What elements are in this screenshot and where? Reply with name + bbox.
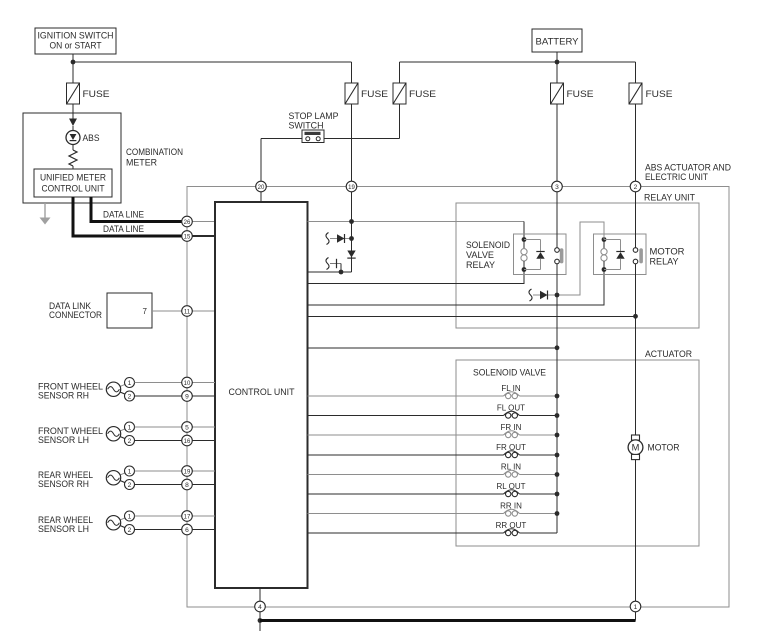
wire — [260, 139, 262, 182]
wire — [135, 426, 182, 428]
wire — [135, 395, 182, 397]
label REAR WHEEL SENSOR LH — [38, 515, 93, 534]
wire — [135, 470, 182, 472]
junction dot — [555, 453, 560, 458]
svg-text:4: 4 — [258, 604, 262, 611]
wire — [259, 588, 261, 601]
wire — [192, 440, 215, 442]
wire — [635, 104, 637, 181]
svg-text:FUSE: FUSE — [361, 89, 388, 99]
svg-text:FR IN: FR IN — [501, 423, 522, 432]
wire — [635, 62, 637, 83]
pin 26 — [182, 216, 193, 227]
svg-text:METER: METER — [126, 158, 157, 168]
arrow into meter — [69, 119, 77, 127]
junction dot — [555, 472, 560, 477]
solenoid relay armature — [560, 248, 564, 263]
pin 20 — [256, 181, 267, 192]
label REAR WHEEL SENSOR RH — [38, 470, 93, 489]
pin 1 — [125, 422, 135, 432]
svg-text:CONNECTOR: CONNECTOR — [49, 310, 102, 320]
wire — [556, 104, 558, 181]
wire — [135, 529, 182, 531]
wire — [635, 460, 637, 602]
wire — [399, 62, 401, 83]
wire — [72, 126, 74, 131]
motor relay box — [594, 234, 647, 275]
svg-text:26: 26 — [184, 220, 191, 226]
wire data line 1 (thick) — [91, 197, 182, 222]
svg-text:FL IN: FL IN — [501, 384, 520, 393]
wire — [192, 395, 215, 397]
svg-text:CONTROL UNIT: CONTROL UNIT — [42, 184, 105, 194]
wire — [135, 484, 182, 486]
solenoid relay flyback diode — [524, 240, 545, 270]
pin 1 — [125, 378, 135, 388]
svg-text:FUSE: FUSE — [83, 89, 110, 99]
solenoid relay coil — [521, 240, 527, 270]
fuse F2 (ignition/ABS) — [345, 83, 358, 104]
label STOP LAMP SWITCH — [289, 111, 339, 131]
FRONT WHEEL SENSOR RH sensor — [106, 382, 129, 396]
solenoid valve FL IN — [308, 392, 558, 399]
junction dot — [71, 60, 76, 65]
ABS actuator and electric unit box — [187, 187, 729, 608]
wire battery rail — [400, 61, 636, 63]
motor relay contact — [633, 248, 638, 264]
motor relay flyback diode — [604, 240, 625, 270]
svg-text:RR OUT: RR OUT — [496, 521, 527, 530]
svg-text:3: 3 — [555, 184, 559, 191]
svg-text:CONTROL UNIT: CONTROL UNIT — [229, 387, 295, 397]
wire motor relay coil feed — [557, 222, 604, 295]
pin 11 — [182, 306, 193, 317]
junction dot — [602, 267, 607, 272]
wire solenoid valve supply — [556, 192, 558, 533]
pin 15 — [182, 231, 193, 242]
svg-text:2: 2 — [634, 184, 638, 191]
unified meter control unit box — [34, 169, 112, 197]
junction dot — [349, 236, 354, 241]
wire — [260, 192, 262, 202]
solenoid valve RL OUT — [308, 490, 558, 497]
svg-text:19: 19 — [184, 469, 191, 475]
pin 19 (sensor) — [182, 466, 193, 477]
resistor (meter) — [69, 150, 77, 166]
svg-text:SOLENOID: SOLENOID — [466, 240, 510, 250]
wire — [135, 382, 182, 384]
svg-text:1: 1 — [128, 380, 132, 387]
pin 10 — [182, 377, 193, 388]
wire — [351, 192, 353, 222]
fuse F5 (battery/motor) — [629, 83, 642, 104]
svg-text:RR IN: RR IN — [500, 502, 522, 511]
combination meter box — [23, 113, 121, 203]
pin 1 — [125, 466, 135, 476]
fuse F3 (battery/stop lamp) — [393, 83, 406, 104]
svg-text:ACTUATOR: ACTUATOR — [645, 349, 692, 359]
wire ground bus (thick) — [260, 619, 636, 622]
wire — [635, 612, 637, 621]
wire data line 2 (thick) — [73, 197, 182, 236]
svg-text:2: 2 — [128, 438, 132, 445]
control unit box — [215, 202, 308, 588]
wire — [351, 62, 353, 83]
pin 4 — [255, 601, 266, 612]
wire motor relay coil return — [308, 270, 605, 306]
wire ignition rail — [73, 61, 352, 63]
pin 9 — [182, 391, 193, 402]
wire — [261, 138, 302, 140]
junction dot — [555, 293, 560, 298]
label COMBINATION METER — [126, 147, 183, 168]
junction dot — [522, 267, 527, 272]
label FRONT WHEEL SENSOR RH — [38, 381, 103, 400]
motor relay armature — [639, 248, 643, 263]
internal diode D3 — [529, 289, 557, 301]
svg-text:BATTERY: BATTERY — [536, 37, 579, 47]
label FRONT WHEEL SENSOR LH — [38, 426, 103, 445]
wire — [72, 166, 74, 169]
wire — [399, 104, 401, 139]
svg-text:17: 17 — [184, 514, 191, 520]
wire — [192, 484, 215, 486]
svg-text:RELAY UNIT: RELAY UNIT — [644, 193, 695, 203]
wire — [192, 235, 215, 237]
solenoid valve FR OUT — [308, 451, 558, 458]
solenoid valve RL IN — [308, 470, 558, 477]
FRONT WHEEL SENSOR LH sensor — [106, 427, 129, 441]
svg-text:FR OUT: FR OUT — [496, 443, 526, 452]
junction dot — [258, 618, 263, 623]
label MOTOR RELAY — [650, 247, 685, 267]
svg-text:5: 5 — [185, 424, 189, 431]
svg-text:SENSOR LH: SENSOR LH — [38, 524, 89, 534]
wire — [324, 138, 400, 140]
svg-text:ELECTRIC UNIT: ELECTRIC UNIT — [645, 172, 708, 182]
wire — [192, 382, 215, 384]
pin 17 — [182, 511, 193, 522]
pin 2 — [125, 391, 135, 401]
solenoid valve RR IN — [308, 509, 558, 516]
svg-text:RELAY: RELAY — [650, 257, 679, 267]
wire — [135, 515, 182, 517]
svg-text:8: 8 — [185, 482, 189, 489]
svg-text:RL OUT: RL OUT — [496, 482, 525, 491]
svg-text:ABS: ABS — [83, 133, 100, 143]
junction dot — [555, 492, 560, 497]
wire — [72, 145, 74, 151]
junction dot — [555, 345, 560, 350]
motor relay coil — [601, 240, 607, 270]
svg-text:6: 6 — [185, 527, 189, 534]
pin 1 — [125, 511, 135, 521]
wire — [135, 440, 182, 442]
svg-text:SOLENOID VALVE: SOLENOID VALVE — [473, 368, 546, 378]
svg-text:2: 2 — [128, 482, 132, 489]
junction dot — [555, 60, 560, 65]
svg-text:FUSE: FUSE — [567, 89, 594, 99]
REAR WHEEL SENSOR LH sensor — [106, 516, 129, 530]
pin 2 — [630, 181, 641, 192]
svg-text:SENSOR LH: SENSOR LH — [38, 435, 89, 445]
svg-text:MOTOR: MOTOR — [650, 247, 685, 257]
svg-text:RL IN: RL IN — [501, 463, 521, 472]
svg-text:FUSE: FUSE — [646, 89, 673, 99]
svg-text:16: 16 — [184, 439, 191, 445]
ignition switch box — [35, 28, 116, 54]
svg-text:M: M — [632, 442, 640, 452]
wire solenoid valve monitor — [308, 347, 558, 349]
svg-text:FUSE: FUSE — [409, 89, 436, 99]
motor M1 — [628, 435, 643, 460]
svg-text:ABS ACTUATOR AND: ABS ACTUATOR AND — [645, 163, 731, 173]
svg-text:11: 11 — [184, 309, 191, 315]
svg-text:19: 19 — [348, 185, 355, 191]
svg-text:DATA LINE: DATA LINE — [103, 224, 144, 234]
junction dot — [555, 394, 560, 399]
pin 3 — [552, 181, 563, 192]
wire — [308, 271, 352, 273]
pin 19 — [346, 181, 357, 192]
svg-text:1: 1 — [128, 424, 132, 431]
solenoid valve FL OUT — [308, 411, 558, 418]
solenoid valve FR IN — [308, 431, 558, 438]
svg-text:20: 20 — [258, 185, 265, 191]
junction dot — [349, 219, 354, 224]
svg-text:STOP LAMP: STOP LAMP — [289, 111, 339, 121]
wire solenoid relay coil feed (gray rail) — [308, 221, 525, 223]
label DATA LINK CONNECTOR — [49, 301, 102, 320]
relay unit box — [456, 203, 699, 328]
data link connector box — [107, 293, 152, 328]
svg-text:10: 10 — [184, 381, 191, 387]
svg-text:ON or START: ON or START — [50, 41, 102, 51]
internal diode D2 (down) — [347, 251, 355, 259]
stop lamp switch — [302, 130, 324, 143]
svg-text:COMBINATION: COMBINATION — [126, 147, 183, 157]
svg-text:IGNITION SWITCH: IGNITION SWITCH — [38, 31, 114, 41]
svg-text:1: 1 — [634, 604, 638, 611]
junction dot — [633, 314, 638, 319]
svg-text:MOTOR: MOTOR — [648, 443, 680, 453]
wire motor supply — [635, 192, 637, 435]
junction dot — [602, 237, 607, 242]
battery box — [532, 29, 582, 52]
solenoid valve RR OUT — [308, 529, 558, 536]
svg-text:9: 9 — [185, 393, 189, 400]
pin 2 — [125, 480, 135, 490]
pin 8 — [182, 479, 193, 490]
pin 2 — [125, 525, 135, 535]
pin 5 — [182, 422, 193, 433]
svg-text:SWITCH: SWITCH — [289, 121, 324, 131]
svg-text:2: 2 — [128, 527, 132, 534]
junction dot — [555, 511, 560, 516]
svg-text:SENSOR RH: SENSOR RH — [38, 391, 89, 401]
wire — [192, 515, 215, 517]
solenoid relay contact — [555, 248, 560, 264]
junction dot — [522, 237, 527, 242]
wire — [556, 52, 558, 83]
internal diode D1 — [326, 233, 352, 245]
wire — [192, 529, 215, 531]
svg-text:VALVE: VALVE — [466, 250, 494, 260]
junction dot — [339, 270, 344, 275]
fuse F1 (ignition/meter) — [67, 83, 80, 104]
svg-text:1: 1 — [128, 513, 132, 520]
svg-text:DATA LINE: DATA LINE — [103, 210, 144, 220]
wire — [192, 310, 215, 312]
pin 2 — [125, 436, 135, 446]
svg-text:RELAY: RELAY — [466, 260, 495, 270]
wire — [192, 470, 215, 472]
actuator box — [456, 360, 699, 546]
junction dot — [555, 413, 560, 418]
ground (combination meter) — [40, 203, 51, 225]
wire — [192, 221, 215, 223]
wire — [72, 54, 74, 83]
pin 1 — [630, 601, 641, 612]
junction dot — [555, 433, 560, 438]
solenoid valve relay box — [514, 234, 567, 275]
wire — [72, 104, 74, 119]
internal contact symbol — [326, 258, 341, 273]
svg-text:1: 1 — [128, 468, 132, 475]
label SOLENOID VALVE RELAY — [466, 240, 510, 270]
svg-text:15: 15 — [184, 234, 191, 240]
fuse F4 (battery/solenoid) — [551, 83, 564, 104]
wire diode chain vertical — [351, 222, 353, 273]
wire — [152, 310, 182, 312]
wire — [192, 426, 215, 428]
svg-text:2: 2 — [128, 393, 132, 400]
svg-text:FL OUT: FL OUT — [497, 404, 525, 413]
svg-text:7: 7 — [143, 307, 148, 316]
REAR WHEEL SENSOR RH sensor — [106, 471, 129, 485]
pin 6 — [182, 524, 193, 535]
wire motor monitor — [308, 315, 636, 317]
wire solenoid relay coil return — [308, 270, 525, 284]
ABS warning lamp — [66, 131, 80, 145]
label ABS ACTUATOR AND ELECTRIC UNIT — [645, 163, 731, 183]
wire — [351, 104, 353, 181]
wire — [259, 612, 261, 631]
svg-text:SENSOR RH: SENSOR RH — [38, 479, 89, 489]
svg-text:UNIFIED METER: UNIFIED METER — [40, 173, 106, 183]
pin 16 — [182, 435, 193, 446]
